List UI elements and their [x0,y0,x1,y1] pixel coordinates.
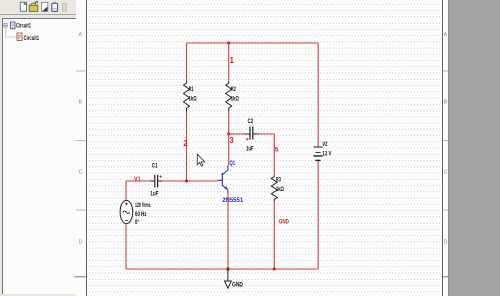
node 1 junction dot [227,42,230,45]
sheet left border strip [76,0,88,296]
svg-text:C: C [444,170,448,176]
svg-text:C: C [79,170,83,176]
wire: R2 top [228,43,230,81]
svg-text:D: D [79,240,83,246]
svg-text:3: 3 [229,136,234,145]
right border tick y140 [443,140,449,142]
left design-toolbox panel: toolbar strip [0,0,76,15]
ground symbol [225,267,232,288]
svg-text:R3: R3 [276,177,281,183]
wire: R1 top [186,43,188,81]
svg-text:R1: R1 [189,87,194,93]
resistor R3 [271,175,277,202]
svg-text:C1: C1 [152,164,158,170]
left border tick y277 [75,276,87,278]
svg-text:D: D [444,240,448,246]
wire: R1 bottom to base node 2 [186,111,188,181]
wire: right drop to battery [317,43,319,146]
svg-text:Circuit1: Circuit1 [16,22,31,29]
svg-text:B: B [444,100,448,106]
svg-text:R2: R2 [231,87,236,93]
C1 polarity plus [159,175,162,178]
toolbar icon: open folder [29,1,38,11]
tree view white box [2,18,76,294]
wire: base wire from V1/C1 [126,180,150,182]
toolbar icon: save/close sheet [42,2,48,11]
wire: bottom ground rail [126,268,318,270]
wire: C1 to base [163,180,218,182]
svg-text:V1: V1 [134,176,141,183]
svg-text:B: B [79,100,83,106]
capacitor C1 [150,175,163,188]
left border tick y140 [76,140,86,142]
wire: C2 to node 5 corner [259,134,274,175]
resistor R1 [184,81,190,111]
wire: V1 top stem [125,181,127,201]
transistor Q1 [217,165,228,193]
schematic sheet canvas with dotted grid [87,0,443,296]
sheet right border strip [442,0,450,296]
battery V2 [313,147,322,160]
wire: V1 bottom stem [125,224,127,269]
svg-text:V2: V2 [322,142,327,148]
wire: collector node3 down [228,134,230,165]
node 3 junction dot [227,133,230,136]
capacitor C2 [245,127,260,140]
svg-text:C2: C2 [248,119,254,125]
svg-text:1kΩ: 1kΩ [231,97,239,103]
svg-text:GND: GND [232,282,243,289]
svg-text:Circuit1: Circuit1 [24,35,40,42]
toolbar icon: disabled tool [63,3,67,11]
svg-text:1: 1 [230,56,235,65]
left border tick y71 [76,70,86,72]
svg-text:2: 2 [183,139,188,148]
svg-text:2N5551: 2N5551 [222,197,243,204]
wire: battery bottom to rail [317,161,319,269]
svg-text:A: A [444,32,448,38]
right border tick y71 [443,70,449,72]
junction dot R3/rail [273,268,276,271]
svg-text:120 Vrms: 120 Vrms [135,203,151,209]
left panel lower background [0,15,76,296]
svg-text:1uF: 1uF [150,192,158,198]
tree connector line [6,27,17,37]
source V1 body [120,200,133,223]
C2 polarity plus [246,138,249,141]
workspace gray area right of sheet [448,0,500,296]
toolbar icon: cut/paste jar [52,2,58,12]
junction dot base/R1 [185,180,188,183]
junction dot emitter/rail [226,267,229,270]
resistor R2 [226,81,232,111]
svg-text:12 V: 12 V [322,152,331,158]
svg-text:5: 5 [275,147,279,154]
right border tick y277 [443,276,449,278]
mouse cursor [197,154,204,166]
svg-text:A: A [79,32,83,38]
tree root icon [11,22,15,29]
svg-text:1kΩ: 1kΩ [189,97,197,103]
left border tick y210 [76,209,86,211]
svg-text:GND: GND [279,220,289,226]
wire: R3 bottom to rail [273,202,275,269]
svg-text:0°: 0° [135,220,139,226]
svg-text:Q1: Q1 [230,160,236,167]
svg-text:1uF: 1uF [246,147,254,153]
toolbar icon: new file [20,2,26,11]
wire: R2 bottom to node 3 [228,111,230,134]
tree expander box [4,24,7,27]
wire: top rail node 1 [187,42,319,44]
wire: emitter down to rail [227,194,229,270]
wire: node 3 to C2 [229,133,245,135]
svg-text:60 Hz: 60 Hz [135,212,147,218]
tree child icon (schematic page) [17,33,22,40]
svg-text:1kΩ: 1kΩ [276,187,284,193]
right border tick y210 [443,209,449,211]
